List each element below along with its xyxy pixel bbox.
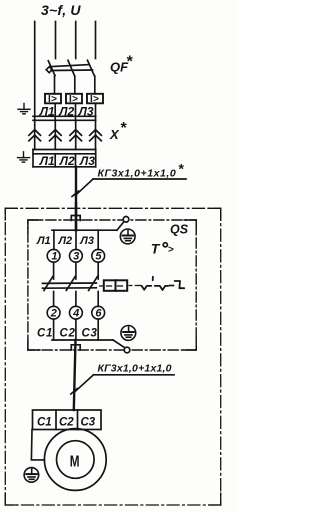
svg-text:2: 2	[50, 308, 57, 320]
svg-text:1: 1	[51, 251, 57, 263]
svg-text:Л3: Л3	[78, 104, 94, 118]
svg-text:3~f, U: 3~f, U	[41, 2, 81, 18]
svg-text:Л3: Л3	[79, 235, 94, 247]
svg-text:Л1: Л1	[36, 235, 51, 247]
svg-text:3: 3	[73, 251, 79, 263]
svg-text:>: >	[168, 245, 174, 256]
svg-text:C3: C3	[81, 416, 96, 428]
svg-text:*: *	[121, 120, 128, 137]
svg-text:Л2: Л2	[58, 235, 73, 247]
svg-text:*: *	[127, 54, 134, 71]
svg-text:КГ3х1,0+1х1,0: КГ3х1,0+1х1,0	[98, 363, 172, 375]
svg-text:M: M	[70, 453, 80, 470]
svg-text:C1: C1	[37, 416, 52, 428]
svg-text:T: T	[151, 241, 161, 257]
svg-text:*: *	[179, 161, 185, 177]
svg-text:Л2: Л2	[59, 154, 75, 168]
svg-text:X: X	[109, 127, 120, 142]
svg-text:QS: QS	[170, 223, 189, 237]
svg-text:C1: C1	[37, 327, 53, 339]
svg-text:Л1: Л1	[39, 104, 55, 118]
svg-text:C2: C2	[59, 416, 74, 428]
svg-text:Л3: Л3	[79, 154, 95, 168]
svg-text:5: 5	[95, 251, 102, 263]
svg-text:Л1: Л1	[39, 154, 55, 168]
svg-text:4: 4	[72, 308, 79, 320]
svg-text:C3: C3	[82, 327, 98, 339]
svg-text:6: 6	[95, 308, 102, 320]
svg-text:Л2: Л2	[58, 104, 74, 118]
svg-text:КГ3х1,0+1х1,0: КГ3х1,0+1х1,0	[98, 168, 177, 180]
svg-text:C2: C2	[60, 327, 76, 339]
